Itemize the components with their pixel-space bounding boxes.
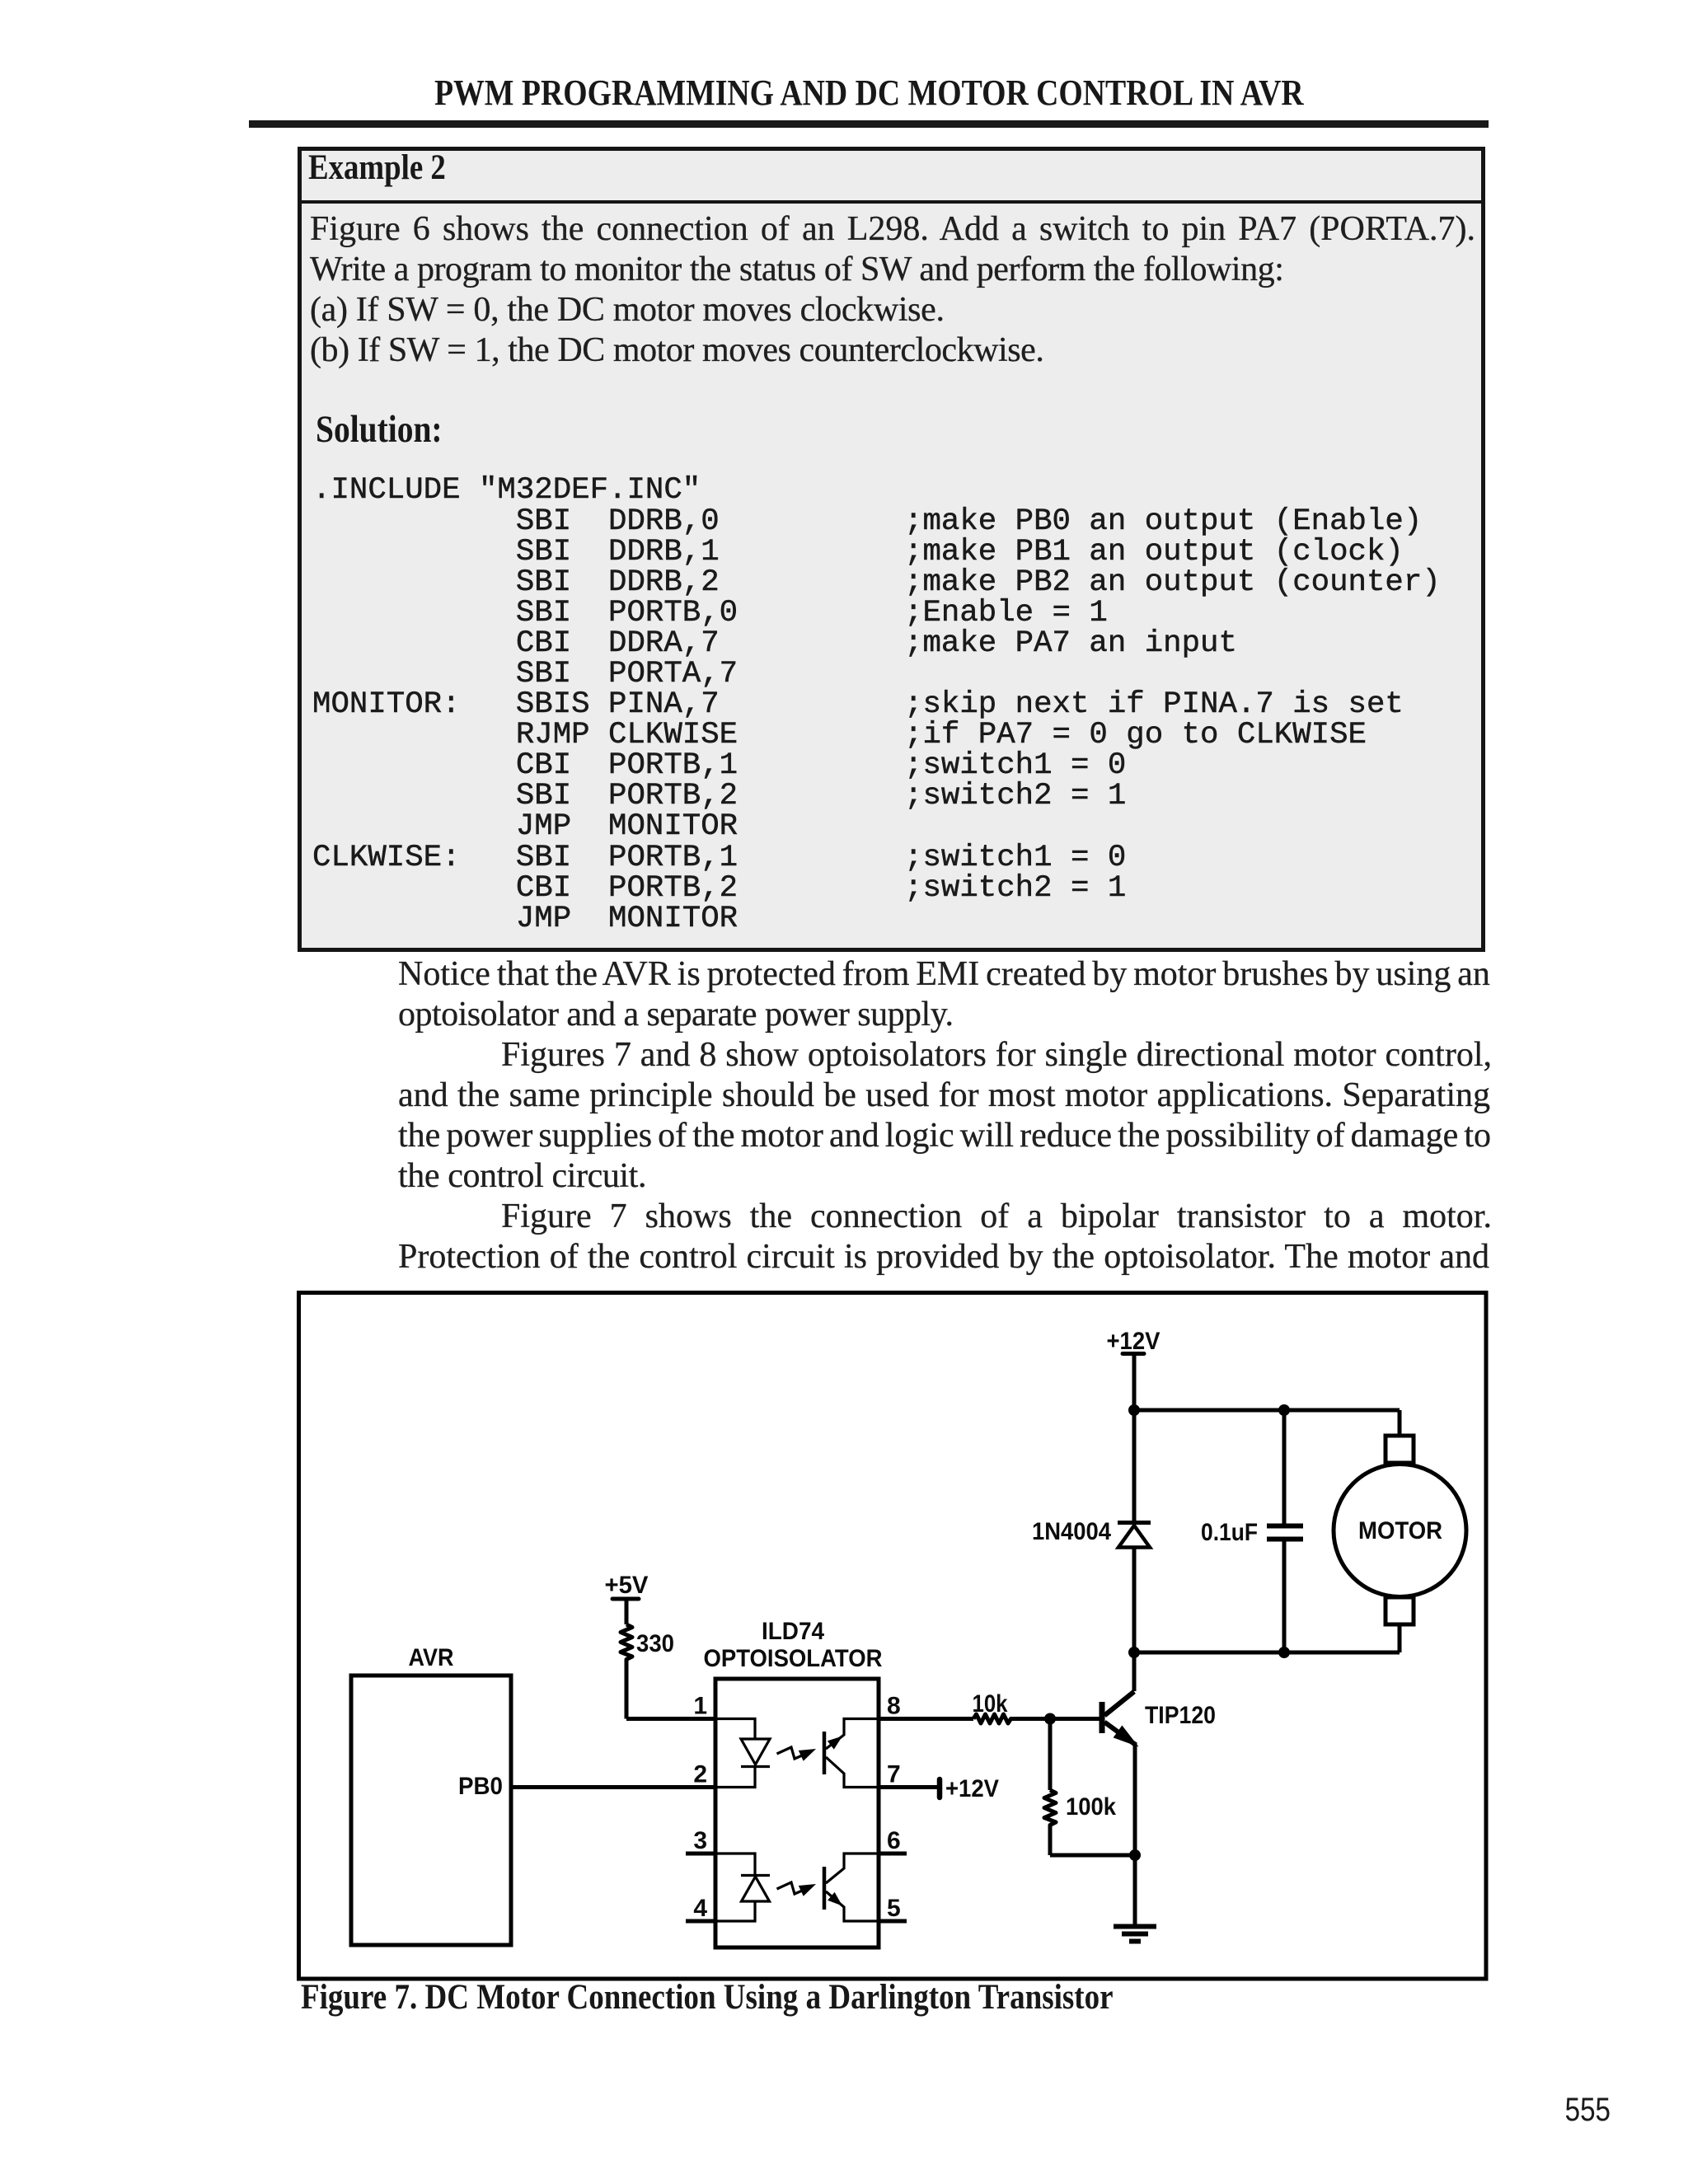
+5V power symbol [605,1572,649,1599]
opto phototransistor top channel [824,1719,879,1788]
svg-text:330: 330 [636,1630,674,1657]
wire diode to collector node [1132,1549,1137,1691]
opto light arrow bottom [777,1882,817,1896]
svg-text:+5V: +5V [605,1572,649,1599]
svg-text:TIP120: TIP120 [1145,1702,1216,1729]
wire PB0 to pin 2 [511,1785,715,1789]
+12V power symbol [1107,1328,1160,1355]
wire emitter down [1133,1742,1137,1924]
svg-text:OPTOISOLATOR: OPTOISOLATOR [704,1645,883,1672]
node junction bottom-capacitor [1278,1647,1290,1658]
pin 6 stub wire [879,1852,907,1856]
svg-text:0.1uF: 0.1uF [1201,1519,1258,1546]
diode D1 1N4004 [1032,1518,1151,1548]
svg-text:AVR: AVR [409,1644,454,1671]
node junction top-capacitor [1278,1404,1290,1416]
motor bottom terminal [1386,1597,1414,1624]
optoisolator U1 ILD74 box [704,1618,883,1947]
pin 5 stub wire [879,1919,907,1924]
wire +5V to pin 1 [626,1717,715,1721]
wire +12V vertical to diode [1132,1354,1137,1521]
opto light arrow top [777,1747,817,1761]
svg-text:ILD74: ILD74 [762,1618,824,1645]
svg-text:6: 6 [887,1827,901,1854]
wire bottom horizontal rail [1134,1651,1400,1655]
motor top terminal [1386,1436,1414,1463]
svg-text:8: 8 [887,1693,901,1720]
svg-text:1: 1 [693,1693,707,1720]
svg-text:7: 7 [887,1761,901,1788]
node junction bottom-left [1128,1647,1140,1658]
ground symbol [1114,1927,1156,1942]
svg-text:+12V: +12V [945,1775,999,1802]
svg-text:MOTOR: MOTOR [1358,1517,1442,1544]
node junction base-100k [1044,1713,1056,1725]
wire pin 7 to +12V [879,1775,999,1802]
resistor R1 330 [621,1601,674,1719]
svg-text:PB0: PB0 [458,1773,503,1800]
pin 4 stub wire [686,1919,715,1924]
resistor R2 10k [879,1690,1100,1723]
opto internal LED top channel [715,1719,770,1788]
svg-text:100k: 100k [1066,1793,1116,1821]
wire motor top drop [1398,1410,1402,1436]
opto internal LED bottom channel [715,1854,770,1921]
svg-text:3: 3 [693,1827,707,1854]
node junction top-left [1128,1404,1140,1416]
wire motor bottom drop [1398,1624,1402,1652]
pin 3 stub wire [686,1852,715,1856]
transistor Q1 TIP120 [1102,1692,1216,1746]
svg-text:2: 2 [693,1761,707,1788]
svg-text:4: 4 [693,1895,707,1922]
opto phototransistor bottom channel [824,1854,879,1921]
svg-text:10k: 10k [973,1690,1008,1718]
figure frame [299,1293,1487,1980]
node junction emitter-100k [1129,1849,1141,1861]
wire top horizontal rail [1134,1408,1400,1413]
svg-text:5: 5 [887,1895,901,1922]
svg-text:1N4004: 1N4004 [1032,1518,1111,1545]
capacitor C1 0.1uF [1201,1410,1303,1652]
AVR box U2 [351,1644,511,1945]
svg-text:+12V: +12V [1107,1328,1160,1355]
resistor R3 100k [1044,1719,1135,1856]
motor M1 [1334,1465,1466,1597]
